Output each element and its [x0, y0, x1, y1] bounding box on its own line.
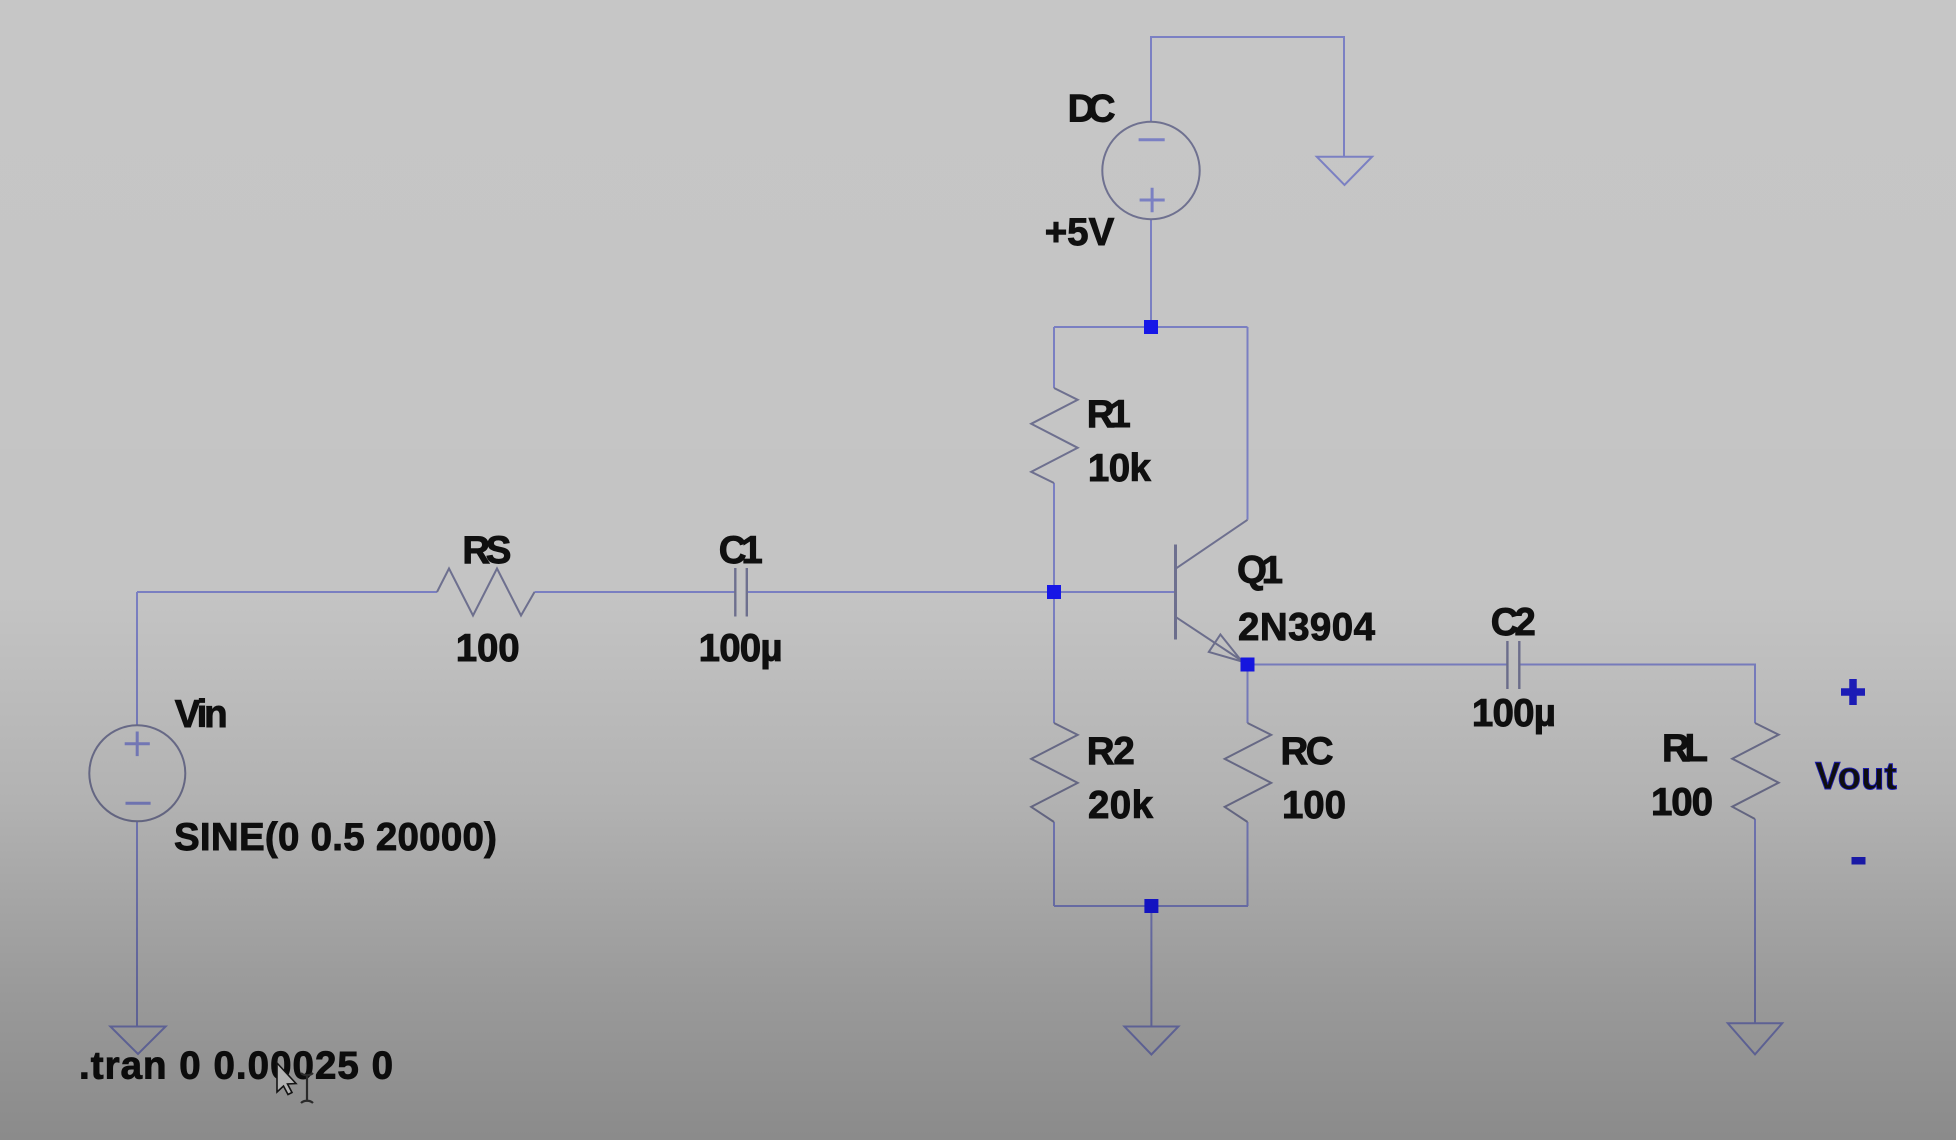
resistor R1 zigzag — [1031, 388, 1078, 483]
voltage source Vin circle — [89, 725, 185, 821]
resistor RS zigzag — [437, 569, 535, 616]
wire bottom net to ground — [1150, 906, 1152, 1027]
voltage source V2 DC circle — [1102, 122, 1199, 219]
node junction emitter — [1241, 658, 1255, 672]
resistor R2 zigzag — [1031, 723, 1078, 822]
wire input net Vin to RS — [137, 591, 437, 593]
wire emitter node to C2 — [1248, 664, 1508, 666]
wire R2 bottom lead — [1053, 822, 1055, 906]
wire RS to C1 — [535, 591, 736, 593]
wire bottom emitter net — [1054, 905, 1248, 907]
ground top right — [1317, 157, 1372, 185]
wire R2 top lead — [1053, 592, 1055, 723]
transistor Q1 base bar — [1174, 545, 1177, 640]
text cursor I-beam — [301, 1073, 313, 1103]
wire RC bottom lead — [1247, 822, 1249, 906]
transistor Q1 emitter diagonal — [1176, 617, 1248, 664]
wire R1 bottom lead — [1053, 483, 1055, 592]
wire +5V rail to R1/collector branch — [1054, 326, 1248, 328]
wire C1 to base node — [747, 591, 1054, 593]
node junction +5V rail — [1144, 320, 1158, 334]
transistor Q1 collector diagonal — [1176, 520, 1248, 569]
node junction bottom — [1144, 899, 1158, 913]
capacitor C1 plates — [735, 568, 747, 617]
wire R1 top lead — [1053, 327, 1055, 388]
wire collector vertical — [1247, 327, 1249, 520]
wire base node to Q1 base — [1054, 591, 1175, 593]
ground below RL — [1728, 1023, 1782, 1054]
wire C2 to RL — [1520, 665, 1755, 724]
wire V2 top lead to rail — [1151, 37, 1344, 157]
resistor RL zigzag — [1732, 723, 1779, 819]
Vin minus mark — [126, 802, 151, 805]
label Vout minus — [1852, 857, 1866, 865]
transistor Q1 emitter arrow — [1209, 635, 1242, 662]
node junction base — [1047, 585, 1061, 599]
resistor RC zigzag — [1225, 723, 1272, 822]
wire RC top lead — [1247, 665, 1249, 724]
V2 plus mark — [1140, 188, 1165, 213]
label Vout plus — [1841, 679, 1865, 705]
capacitor C2 plates — [1507, 641, 1519, 689]
mouse cursor arrow — [277, 1063, 296, 1095]
Vin plus mark — [125, 732, 150, 757]
wire RL bottom lead to ground — [1754, 819, 1756, 1023]
wire Vin top lead — [136, 592, 138, 726]
wire V2 bottom lead — [1150, 220, 1152, 328]
V2 minus mark — [1139, 138, 1165, 141]
ground bottom middle — [1124, 1027, 1178, 1055]
ground below Vin — [110, 1027, 165, 1055]
wire Vin bottom lead to ground — [136, 822, 138, 1027]
